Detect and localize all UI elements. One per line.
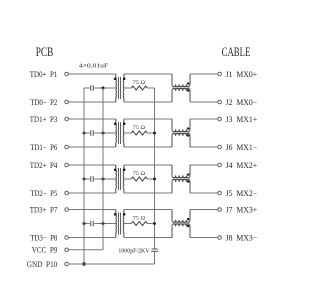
svg-text:J4 MX2+: J4 MX2+ <box>226 161 258 170</box>
svg-text:VCC P9: VCC P9 <box>32 246 58 255</box>
svg-text:1000pF/2KV: 1000pF/2KV <box>118 248 150 255</box>
svg-text:TD0+ P1: TD0+ P1 <box>30 70 58 79</box>
svg-text:TD0− P2: TD0− P2 <box>30 98 57 107</box>
svg-text:TD2+ P4: TD2+ P4 <box>30 161 58 170</box>
svg-text:PCB: PCB <box>36 45 54 59</box>
svg-text:J3 MX1+: J3 MX1+ <box>226 115 258 124</box>
svg-text:GND P10: GND P10 <box>27 260 58 269</box>
svg-text:J1 MX0+: J1 MX0+ <box>226 70 258 79</box>
svg-text:4×0.01uF: 4×0.01uF <box>79 63 109 70</box>
svg-text:J5 MX2−: J5 MX2− <box>226 189 258 198</box>
svg-text:TD3+ P7: TD3+ P7 <box>30 205 58 214</box>
svg-text:J7 MX3+: J7 MX3+ <box>226 205 258 214</box>
svg-text:TD1+ P3: TD1+ P3 <box>30 115 58 124</box>
svg-text:75 Ω: 75 Ω <box>133 171 145 177</box>
svg-text:J8 MX3−: J8 MX3− <box>226 233 258 242</box>
svg-text:TD1− P6: TD1− P6 <box>30 143 57 152</box>
svg-text:J2 MX0−: J2 MX0− <box>226 98 258 107</box>
svg-text:75 Ω: 75 Ω <box>133 215 145 221</box>
svg-text:75 Ω: 75 Ω <box>133 125 145 131</box>
svg-text:TD3− P8: TD3− P8 <box>30 233 57 242</box>
svg-text:75 Ω: 75 Ω <box>133 80 145 86</box>
svg-text:CABLE: CABLE <box>222 45 251 59</box>
svg-text:J6 MX1−: J6 MX1− <box>226 143 258 152</box>
svg-text:TD2− P5: TD2− P5 <box>30 189 57 198</box>
